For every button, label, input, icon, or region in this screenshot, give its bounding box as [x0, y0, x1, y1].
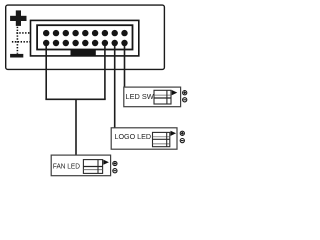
svg-text:LOGO LED: LOGO LED	[115, 132, 152, 141]
svg-text:LED SW: LED SW	[126, 92, 154, 101]
svg-text:FAN LED: FAN LED	[53, 162, 80, 171]
